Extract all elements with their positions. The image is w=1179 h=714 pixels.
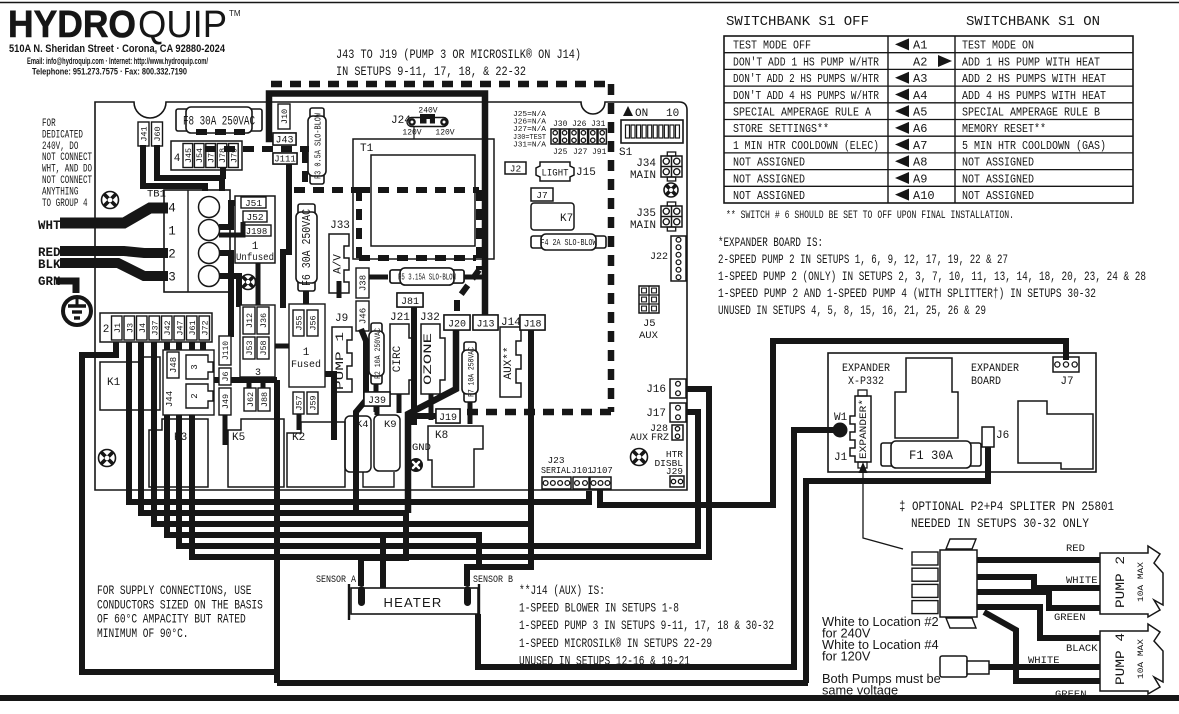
svg-text:J60: J60 <box>153 126 163 141</box>
wire F6 to J55 <box>303 291 309 308</box>
svg-text:J37: J37 <box>150 320 160 335</box>
svg-text:J81: J81 <box>401 297 419 308</box>
svg-text:J49: J49 <box>221 394 231 409</box>
pump 4 box <box>1100 624 1163 694</box>
svg-text:J72: J72 <box>200 320 210 335</box>
svg-text:PUMP 2: PUMP 2 <box>1113 556 1128 608</box>
svg-text:MAIN: MAIN <box>630 170 656 182</box>
svg-text:J101: J101 <box>571 466 593 476</box>
svg-text:J46: J46 <box>359 308 369 324</box>
svg-text:J31=N/A: J31=N/A <box>513 141 547 149</box>
svg-text:WHITE: WHITE <box>1028 655 1060 667</box>
svg-text:LIGHT: LIGHT <box>542 168 569 180</box>
wire OZONE down <box>429 394 434 420</box>
label SENSOR A <box>315 572 357 584</box>
svg-text:A1: A1 <box>913 39 927 53</box>
svg-text:J39: J39 <box>368 396 386 407</box>
relay K8 <box>428 426 483 487</box>
svg-text:NOT CONNECT: NOT CONNECT <box>42 175 92 187</box>
wire J78 stub <box>220 167 226 179</box>
ground symbol <box>63 297 91 325</box>
svg-text:K8: K8 <box>435 430 448 442</box>
svg-text:J26: J26 <box>572 120 587 129</box>
dashed box around T1 <box>359 190 479 270</box>
svg-text:3: 3 <box>190 364 200 369</box>
svg-text:J107: J107 <box>591 466 613 476</box>
svg-text:DON'T ADD 1 HS PUMP W/HTR: DON'T ADD 1 HS PUMP W/HTR <box>733 55 879 69</box>
connector CIRC J21 <box>390 324 414 394</box>
wire fused block down <box>297 414 302 430</box>
svg-text:F5 3.15A SLO-BLOW: F5 3.15A SLO-BLOW <box>398 273 456 283</box>
jumper J24 icon <box>407 118 448 127</box>
svg-text:4: 4 <box>168 202 176 216</box>
wire J1 to bottom-left rail <box>82 340 277 672</box>
svg-text:EXPANDER*: EXPANDER* <box>858 399 870 459</box>
wire GRN to ground <box>56 281 76 293</box>
svg-text:J43 TO J19 (PUMP 3 OR MICROSIL: J43 TO J19 (PUMP 3 OR MICROSILK® ON J14) <box>336 48 581 62</box>
dashed jog to T1 box <box>294 152 359 190</box>
wire J18 down to heater sensor B <box>467 330 531 567</box>
wire staircase 6 to J16 <box>192 342 709 557</box>
svg-text:A/V: A/V <box>333 254 345 274</box>
svg-text:1 MIN HTR COOLDOWN (ELEC): 1 MIN HTR COOLDOWN (ELEC) <box>733 139 879 153</box>
svg-text:UNUSED IN SETUPS 4, 5, 8, 15,: UNUSED IN SETUPS 4, 5, 8, 15, 16, 21, 25… <box>718 304 986 318</box>
svg-text:GREEN: GREEN <box>1055 689 1087 701</box>
relay K5 <box>228 419 284 487</box>
page top border line <box>0 2 1179 4</box>
svg-text:SERIAL: SERIAL <box>541 465 571 476</box>
svg-text:Telephone: 951.273.7575 ·: Telephone: 951.273.7575 · Fax: 800.332.7… <box>32 67 187 77</box>
svg-text:K1: K1 <box>107 377 121 389</box>
svg-text:J12: J12 <box>245 313 255 328</box>
svg-text:ANYTHING: ANYTHING <box>42 186 78 198</box>
screw hole below unfused <box>241 275 256 290</box>
svg-text:WHT: WHT <box>38 219 61 233</box>
svg-text:GND: GND <box>412 442 431 454</box>
svg-text:240V, DO: 240V, DO <box>42 141 79 153</box>
wire vertical junction 277 <box>274 380 280 683</box>
label J19 <box>436 409 460 423</box>
svg-text:2-SPEED PUMP 2 IN SETUPS 1, 6,: 2-SPEED PUMP 2 IN SETUPS 1, 6, 9, 12, 17… <box>718 253 1008 267</box>
relay base notch <box>363 472 394 487</box>
svg-text:TB1: TB1 <box>147 189 166 201</box>
svg-text:J7: J7 <box>536 190 547 201</box>
fuse F2 <box>371 323 382 335</box>
svg-text:NOT ASSIGNED: NOT ASSIGNED <box>962 189 1034 203</box>
svg-text:W1: W1 <box>834 412 848 424</box>
heater box <box>351 588 478 614</box>
wire J81 down <box>411 307 417 425</box>
connector LIGHT J15 <box>536 162 574 181</box>
svg-text:A3: A3 <box>913 72 927 86</box>
svg-text:TEST MODE OFF: TEST MODE OFF <box>733 39 811 53</box>
connector PUMP 1 / J9 <box>332 327 352 392</box>
wire F7 down <box>468 402 473 424</box>
connector J110 <box>219 336 231 365</box>
wire J49 down <box>223 415 228 445</box>
relay K3 <box>149 419 208 487</box>
svg-text:3: 3 <box>168 271 176 285</box>
svg-text:J27: J27 <box>573 148 588 157</box>
fuse F1 30A <box>881 443 895 466</box>
DIP switch S1 ON marker <box>623 106 633 116</box>
connector J23 <box>542 477 571 489</box>
wire J46 right <box>356 329 366 513</box>
wire GREEN to pump4 <box>984 612 1100 681</box>
label J43 <box>273 133 296 145</box>
svg-text:TO GROUP 4: TO GROUP 4 <box>42 198 88 210</box>
svg-text:OZONE: OZONE <box>423 332 435 385</box>
connector AUX J14 <box>500 327 521 397</box>
svg-text:NOT ASSIGNED: NOT ASSIGNED <box>733 189 805 203</box>
svg-text:MEMORY RESET**: MEMORY RESET** <box>962 122 1046 136</box>
solid route J43 down J13 <box>269 94 485 317</box>
svg-text:F1 30A: F1 30A <box>909 448 953 463</box>
connector J12 <box>243 307 255 334</box>
svg-text:120V: 120V <box>402 129 421 138</box>
wire J111 down <box>283 164 289 308</box>
svg-text:J111: J111 <box>274 155 296 165</box>
connector J16 <box>670 379 686 398</box>
svg-text:J48: J48 <box>169 357 179 373</box>
svg-text:J62: J62 <box>246 392 256 407</box>
svg-text:S1: S1 <box>619 147 633 159</box>
sensor bulb B <box>464 586 471 606</box>
svg-text:F6 30A 250VAC: F6 30A 250VAC <box>300 209 314 286</box>
wire J52 left <box>219 222 243 235</box>
svg-text:J198: J198 <box>246 227 268 237</box>
svg-text:1-SPEED PUMP 2 AND 1-SPEED PUM: 1-SPEED PUMP 2 AND 1-SPEED PUMP 4 (WITH … <box>718 287 1096 301</box>
svg-text:5 MIN HTR COOLDOWN (GAS): 5 MIN HTR COOLDOWN (GAS) <box>962 139 1106 153</box>
wire F5 to main drop <box>462 275 486 280</box>
svg-text:J2: J2 <box>510 164 522 175</box>
svg-text:EXPANDER: EXPANDER <box>842 363 890 375</box>
svg-text:J10: J10 <box>280 109 290 124</box>
svg-text:J20: J20 <box>448 320 466 331</box>
screw hole right column <box>664 183 678 197</box>
connector J60 <box>152 122 163 146</box>
svg-text:J3: J3 <box>125 323 135 333</box>
svg-text:X-P332: X-P332 <box>848 376 884 388</box>
main control board outline <box>95 102 687 490</box>
dashed stubs near J43 <box>196 132 309 149</box>
connector EXPANDER* <box>850 396 871 462</box>
splitter connector <box>940 550 977 617</box>
svg-text:WHITE: WHITE <box>1066 575 1098 587</box>
svg-text:J18: J18 <box>523 320 541 331</box>
screw hole near HTR <box>631 449 648 466</box>
svg-text:EXPANDER: EXPANDER <box>971 363 1019 375</box>
svg-text:F3 0.5A SLO-BLOW: F3 0.5A SLO-BLOW <box>314 113 324 179</box>
expander relay 2 <box>1018 401 1093 469</box>
connector J5 AUX <box>639 286 659 313</box>
svg-text:F4 2A SLO-BLOW: F4 2A SLO-BLOW <box>541 238 597 248</box>
svg-text:DON'T ADD 2 HS PUMPS W/HTR: DON'T ADD 2 HS PUMPS W/HTR <box>733 72 879 86</box>
svg-text:J6: J6 <box>221 371 231 381</box>
wire WHITE to pump4 <box>986 664 1100 670</box>
svg-text:J5: J5 <box>643 318 656 330</box>
svg-text:2: 2 <box>168 248 176 262</box>
svg-text:1-SPEED PUMP 2 (ONLY) IN SETUP: 1-SPEED PUMP 2 (ONLY) IN SETUPS 2, 3, 7,… <box>718 270 1146 284</box>
connector J10 <box>278 104 290 129</box>
svg-text:J7: J7 <box>1060 376 1073 388</box>
svg-text:NOT CONNECT: NOT CONNECT <box>42 152 92 164</box>
svg-text:BLACK: BLACK <box>1066 643 1098 655</box>
connector OZONE J32 <box>421 324 445 394</box>
connector 3 (block) <box>186 355 213 379</box>
label J43 overlay <box>273 133 296 145</box>
switchbank table grid <box>724 36 1133 203</box>
connector J28 <box>672 425 683 440</box>
wire TB1 to J12 area <box>219 203 241 227</box>
label J19 overlay <box>436 409 460 423</box>
svg-text:A8: A8 <box>913 156 927 170</box>
svg-text:F8 30A 250VAC: F8 30A 250VAC <box>183 114 255 129</box>
page bottom border line <box>0 695 1179 701</box>
svg-text:SWITCHBANK S1 OFF: SWITCHBANK S1 OFF <box>726 14 869 30</box>
connector J46 <box>356 301 369 331</box>
wire staircase 4 to sensor B elbow <box>167 342 479 586</box>
svg-text:J16: J16 <box>646 384 666 396</box>
svg-text:TM: TM <box>229 9 241 18</box>
svg-text:J35: J35 <box>636 208 656 220</box>
svg-text:J1: J1 <box>113 323 123 333</box>
fuse F3 <box>310 108 324 120</box>
svg-text:OF 60°C AMPACITY BUT RATED: OF 60°C AMPACITY BUT RATED <box>97 613 246 627</box>
svg-text:3: 3 <box>255 368 261 379</box>
svg-text:J59: J59 <box>309 395 319 410</box>
wire F2 down <box>374 384 379 412</box>
svg-text:2: 2 <box>103 324 110 336</box>
svg-text:1: 1 <box>303 347 310 359</box>
svg-text:QUIP: QUIP <box>138 4 227 46</box>
connector J101 <box>573 477 589 489</box>
label J81 overlay <box>397 293 423 307</box>
label J18 <box>520 315 545 330</box>
svg-text:J36: J36 <box>259 313 269 328</box>
expander board outline <box>828 353 1096 472</box>
DIP switch S1 <box>621 120 683 143</box>
connector strip J1-J72 <box>100 313 212 342</box>
wire staircase 3 rail to J18 drop <box>154 342 531 524</box>
svg-text:Fused: Fused <box>291 359 321 371</box>
wire serial J107 to expander J7 <box>600 341 1066 505</box>
svg-text:J54: J54 <box>195 148 205 163</box>
svg-text:1-SPEED MICROSILK® IN SETUPS 2: 1-SPEED MICROSILK® IN SETUPS 22-29 <box>519 637 712 651</box>
wire J60 down <box>157 145 222 191</box>
fuse F4 <box>531 236 545 248</box>
wire staircase 2 to heater elbow A <box>141 342 406 586</box>
svg-text:NOT ASSIGNED: NOT ASSIGNED <box>733 156 805 170</box>
pump 2 box <box>1100 546 1163 617</box>
wire WHITE to pump2 <box>977 577 1100 588</box>
connector J6 expander <box>982 427 994 447</box>
wire unfused to J36 <box>256 263 261 307</box>
svg-text:2: 2 <box>190 393 200 398</box>
svg-text:10A MAX: 10A MAX <box>1136 639 1146 679</box>
svg-text:J32: J32 <box>420 312 440 324</box>
svg-text:ADD 2 HS PUMPS WITH HEAT: ADD 2 HS PUMPS WITH HEAT <box>962 72 1106 86</box>
wire TB1 row2 to J36 <box>219 253 231 337</box>
connector J22 <box>671 236 686 281</box>
connector J6 main <box>219 368 231 385</box>
svg-text:ADD 1 HS PUMP WITH HEAT: ADD 1 HS PUMP WITH HEAT <box>962 55 1100 69</box>
label J111 <box>273 153 297 164</box>
svg-text:TEST MODE ON: TEST MODE ON <box>962 39 1034 53</box>
svg-text:F7 10A 250VAC: F7 10A 250VAC <box>467 347 477 397</box>
svg-text:ADD 4 HS PUMPS WITH HEAT: ADD 4 HS PUMPS WITH HEAT <box>962 89 1106 103</box>
svg-text:A5: A5 <box>913 105 927 119</box>
svg-text:AUX**: AUX** <box>503 346 515 379</box>
svg-text:J52: J52 <box>246 212 263 223</box>
svg-text:J53: J53 <box>245 340 255 355</box>
label J2 <box>505 162 526 174</box>
svg-text:J45: J45 <box>184 148 194 163</box>
svg-text:J9: J9 <box>335 313 348 325</box>
svg-text:J43: J43 <box>275 136 293 147</box>
svg-text:1: 1 <box>168 225 176 239</box>
wire RED to pump2 <box>977 557 1100 563</box>
dashed diagonal to J20 <box>457 270 479 316</box>
svg-text:DON'T ADD 4 HS PUMPS W/HTR: DON'T ADD 4 HS PUMPS W/HTR <box>733 89 879 103</box>
svg-text:ON: ON <box>635 108 648 120</box>
connector J53 <box>243 337 255 359</box>
svg-text:BOARD: BOARD <box>971 376 1001 388</box>
connector J36 <box>257 307 269 334</box>
svg-text:STORE SETTINGS**: STORE SETTINGS** <box>733 122 829 136</box>
wire W1 to heater right <box>478 430 836 667</box>
wire J72 down <box>203 340 277 380</box>
expander relay 1 <box>895 358 958 438</box>
W1 terminal dot <box>833 423 848 438</box>
fuse F5 <box>390 270 404 283</box>
svg-text:J38: J38 <box>359 275 369 291</box>
svg-text:MAIN: MAIN <box>630 220 656 232</box>
svg-text:A7: A7 <box>913 139 927 153</box>
svg-text:FOR SUPPLY CONNECTIONS, USE: FOR SUPPLY CONNECTIONS, USE <box>97 584 251 598</box>
svg-text:for 120V: for 120V <box>822 649 871 664</box>
svg-text:4: 4 <box>174 153 181 165</box>
connector J41 <box>138 122 149 146</box>
svg-text:IN SETUPS 9-11, 17, 18, & 22-3: IN SETUPS 9-11, 17, 18, & 22-32 <box>336 65 526 79</box>
unfused block J51/J52/J198 <box>235 196 275 263</box>
relay K2 <box>287 422 345 487</box>
svg-text:J61: J61 <box>188 320 198 335</box>
label J7 main board <box>531 188 553 201</box>
wire BLACK to pump4 <box>977 607 1100 638</box>
svg-text:WHT, AND DO: WHT, AND DO <box>42 164 92 176</box>
svg-text:J56: J56 <box>309 315 319 330</box>
svg-text:SENSOR B: SENSOR B <box>473 575 513 586</box>
svg-text:CONDUCTORS SIZED ON THE BASIS: CONDUCTORS SIZED ON THE BASIS <box>97 598 263 612</box>
connector J62/J88 <box>244 388 256 411</box>
terminal block TB1 <box>164 190 230 292</box>
wire BLK supply cable <box>60 263 168 276</box>
svg-text:J88: J88 <box>260 392 270 407</box>
svg-text:AUX: AUX <box>630 433 648 444</box>
svg-text:10: 10 <box>666 108 679 120</box>
wire A/V down <box>337 281 342 298</box>
svg-text:A6: A6 <box>913 122 927 136</box>
svg-text:J47: J47 <box>175 320 185 335</box>
svg-text:*EXPANDER BOARD IS:: *EXPANDER BOARD IS: <box>718 236 823 250</box>
svg-text:J4: J4 <box>138 323 148 333</box>
svg-text:K9: K9 <box>384 419 397 431</box>
svg-text:K5: K5 <box>232 432 245 444</box>
svg-text:J22: J22 <box>650 252 668 263</box>
label J39 <box>364 392 390 406</box>
svg-text:J1: J1 <box>834 452 848 464</box>
svg-text:J15: J15 <box>576 167 596 179</box>
wire staircase 1 <box>129 342 589 502</box>
wire J24 to T1 <box>413 127 415 139</box>
connector A/V J33 <box>329 234 349 293</box>
connector J49 <box>219 388 231 415</box>
screw hole mid-left <box>99 450 116 467</box>
svg-text:K7: K7 <box>560 213 573 225</box>
label J111 overlay <box>273 153 297 164</box>
relay K1 <box>100 357 160 410</box>
svg-text:A10: A10 <box>913 189 935 203</box>
svg-text:K2: K2 <box>292 432 305 444</box>
svg-text:FOR: FOR <box>42 118 56 130</box>
connector J7 expander <box>1053 357 1079 372</box>
relay K9 <box>374 415 400 471</box>
wire J38 to F5 <box>366 275 388 280</box>
wire J20 down-left <box>408 330 456 513</box>
svg-text:1: 1 <box>252 241 259 253</box>
label SENSOR B <box>472 572 514 584</box>
svg-text:240V: 240V <box>418 107 437 116</box>
svg-text:J58: J58 <box>259 340 269 355</box>
svg-text:Unfused: Unfused <box>236 252 274 264</box>
wire staircase 5 to J17 <box>179 342 698 546</box>
connector J55/J56 <box>293 310 304 336</box>
svg-text:HEATER: HEATER <box>384 595 443 610</box>
svg-text:J57: J57 <box>295 395 305 410</box>
connector J34 <box>661 156 682 177</box>
svg-text:J13: J13 <box>476 320 494 331</box>
screw hole top-left <box>102 192 119 209</box>
svg-text:J110: J110 <box>222 341 231 360</box>
arrow splitter to J1 <box>863 472 903 549</box>
connector 2 (block) <box>186 384 213 408</box>
svg-text:J51: J51 <box>245 198 262 209</box>
label J13 overlay <box>473 315 498 330</box>
svg-text:SWITCHBANK S1 ON: SWITCHBANK S1 ON <box>966 14 1100 30</box>
svg-text:PUMP 4: PUMP 4 <box>1113 633 1128 685</box>
svg-text:J30: J30 <box>553 120 568 129</box>
fused block outer <box>289 304 325 387</box>
connector block 4/J45/J54/J77/J78/J79 <box>171 141 242 170</box>
svg-text:NOT ASSIGNED: NOT ASSIGNED <box>962 172 1034 186</box>
fuse F7 <box>464 342 476 354</box>
label J81 <box>397 293 423 307</box>
wire J58 to fused <box>273 344 289 349</box>
svg-text:SPECIAL AMPERAGE RULE B: SPECIAL AMPERAGE RULE B <box>962 105 1100 119</box>
svg-text:J42: J42 <box>163 320 173 335</box>
connector J57/J59 <box>293 392 304 414</box>
relay K7 <box>531 203 574 230</box>
label J39 overlay <box>364 392 390 406</box>
svg-text:J6: J6 <box>996 430 1009 442</box>
svg-text:**J14 (AUX) IS:: **J14 (AUX) IS: <box>519 584 605 598</box>
wire GREEN to pump2 <box>977 592 1100 608</box>
wire J39 down <box>375 406 380 415</box>
label J18 overlay <box>520 315 545 330</box>
svg-text:FRZ: FRZ <box>651 433 669 444</box>
wire J58 to J88 <box>261 359 266 389</box>
